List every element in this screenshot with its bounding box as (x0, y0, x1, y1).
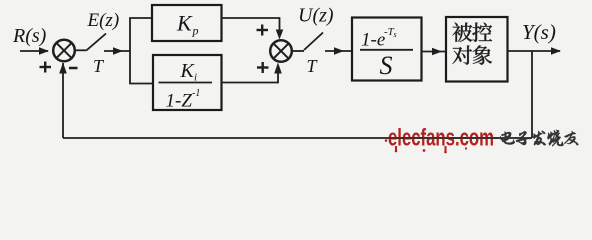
block plant 被控对象 (446, 17, 508, 82)
wire feedback left vertical with up arrow (59, 63, 67, 139)
svg-text:-1: -1 (192, 88, 200, 99)
wire output Y(s) with arrow (508, 47, 562, 55)
wire branch split vertical (129, 18, 131, 84)
sampler switch T2 (292, 33, 323, 52)
svg-text:K: K (176, 11, 193, 36)
svg-text:1-e: 1-e (361, 30, 385, 51)
svg-text:1-Z: 1-Z (166, 91, 193, 112)
plus sign at S1 input (40, 62, 52, 73)
logo text 电子发烧友 (500, 130, 578, 147)
svg-text:p: p (192, 24, 199, 38)
svg-text:Y(s): Y(s) (522, 20, 556, 44)
wire ZOH to plant with arrow (422, 48, 447, 56)
svg-text:U(z): U(z) (298, 5, 334, 27)
wire feedback over logo (388, 137, 497, 139)
plus sign at S2 top (257, 25, 269, 36)
wire feedback bottom horizontal (63, 137, 532, 139)
wire to Ki (129, 83, 153, 85)
summing junction S1 (53, 40, 75, 62)
wire feedback right vertical (531, 51, 533, 138)
svg-text:S: S (380, 51, 393, 80)
svg-text:R(s): R(s) (12, 25, 47, 47)
wire input R(s) with arrow (20, 47, 49, 55)
logo drips (385, 139, 467, 153)
svg-text:s: s (394, 30, 397, 39)
plus sign at S2 bottom (257, 62, 269, 73)
wire E(z) to branch split with arrow (104, 47, 130, 55)
wire Ki to S2 with up arrow (222, 63, 282, 84)
block Ki/(1-Z^-1) (153, 55, 222, 112)
svg-text:E(z): E(z) (87, 10, 120, 31)
wire Kp to S2 with down arrow (222, 17, 284, 39)
block ZOH (1-e^-Ts)/S (352, 18, 422, 81)
block Kp (152, 5, 222, 41)
sampler switch T1 (75, 34, 106, 51)
summing junction S2 (270, 40, 292, 62)
minus sign at S1 feedback (69, 67, 78, 70)
wire U(z) to ZOH with arrow (325, 47, 352, 55)
wire to Kp (129, 17, 152, 19)
